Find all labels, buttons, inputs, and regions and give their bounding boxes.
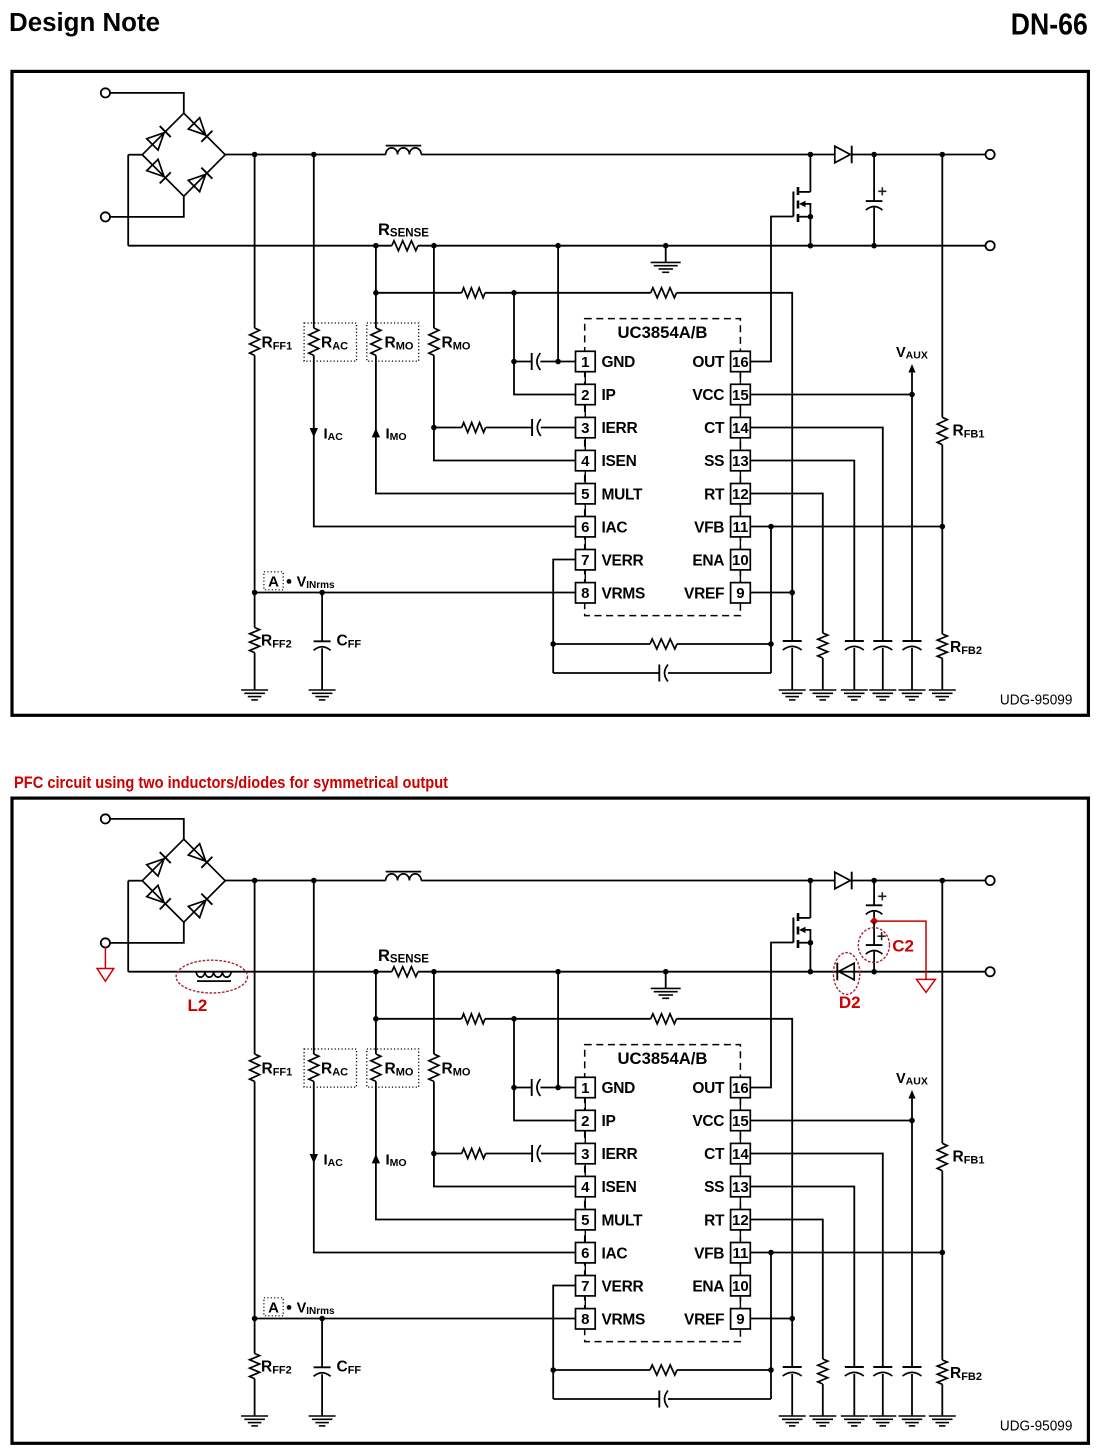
wire C2 top [873,921,875,945]
wire RMO column B to pin 4 [434,1081,576,1186]
label RFF2 [261,1359,292,1377]
pin 13 SS [704,450,750,470]
wire pin 12 RT column [750,494,823,634]
junction (RAC column / top rail) [311,152,317,158]
node bullet [287,579,292,584]
junction (RMO column A / lower rail) [373,243,379,249]
svg-text:11: 11 [732,519,748,536]
label RMO (B) [442,1061,471,1079]
red wire to ground [874,921,926,979]
pin 11 VFB [694,1243,750,1263]
pin 16 OUT [692,1077,750,1097]
transistor Q1 (MOSFET) [793,155,813,246]
pin 3 IERR [576,417,638,437]
pin 3 IERR [576,1143,638,1163]
AC input terminal J1 (top) [101,88,110,97]
svg-text:14: 14 [732,1146,749,1163]
svg-text:8: 8 [581,1311,589,1328]
svg-text:9: 9 [736,585,744,602]
wire [128,154,142,156]
pin 13 SS [704,1176,750,1196]
svg-text:VREF: VREF [684,585,724,602]
capacitor (CT) [873,641,892,650]
label UC3854A/B [618,1050,708,1068]
label C2 [892,937,914,956]
DC output terminal (return) [986,241,995,250]
wire comp cap row (right) [668,1398,771,1400]
svg-text:C2: C2 [892,937,914,956]
diode D1 (boost diode) [835,146,852,164]
label L2 [188,996,208,1015]
transistor Q1 (MOSFET) [793,881,813,972]
wire top rail (bridge to inductor) [225,880,386,882]
label IMO [386,426,407,444]
svg-text:13: 13 [732,1179,749,1196]
resistor RMO (B) [429,328,439,355]
svg-text:PFC circuit using two inductor: PFC circuit using two inductors/diodes f… [14,773,448,792]
svg-text:D2: D2 [839,993,861,1012]
junction (VFB / compensation) [768,524,774,530]
current arrow IMO [372,1154,380,1163]
svg-text:IAC: IAC [602,1245,628,1262]
junction (pin 2 branch / 292-row) [511,290,517,296]
bridge rectifier BR1 frame [142,113,225,196]
current arrow IAC [310,428,318,437]
resistor RFB2 [937,634,947,658]
node A (dotted box) [264,1298,283,1317]
AC input terminal J1 (top) [101,814,110,823]
svg-text:2: 2 [581,1113,589,1130]
wire RMO column A to pin 5 [376,1081,576,1219]
pin 5 MULT [576,1210,644,1230]
label CFF [337,1359,362,1377]
capacitor (VREF bypass) [783,641,802,650]
wire lower rail (left of RSENSE) [128,245,392,247]
resistor RFF2 [250,1354,260,1379]
resistor RFF1 [250,1054,260,1081]
wire RFB1 to VFB node [941,445,943,634]
resistor (IERR row) [462,1149,486,1159]
junction (RMO column B / lower rail) [431,243,437,249]
red circle around D2 [833,953,859,995]
svg-text:9: 9 [736,1311,744,1328]
wire RMO column A to pin 5 [376,355,576,493]
svg-text:UDG-95099: UDG-95099 [1000,693,1073,709]
resistor RAC [309,1054,319,1081]
wire [127,155,129,246]
svg-text:IERR: IERR [602,420,638,437]
label RMO (B) [442,335,471,353]
wire RAC column to pin 6 [314,1081,576,1252]
AC input terminal J2 (bottom) [101,212,110,221]
svg-text:5: 5 [581,486,589,503]
pin 8 VRMS [576,583,646,603]
red ground wire (input) [104,948,106,969]
svg-text:CT: CT [704,420,725,437]
svg-text:Design Note: Design Note [9,9,160,37]
svg-text:IAC: IAC [602,519,628,536]
wire RAC column to pin 6 [314,355,576,526]
capacitor (CT) [873,1367,892,1376]
junction (VFB node) [940,1250,946,1256]
node bullet [287,1305,292,1310]
wire pin1 row (left) [514,1087,532,1089]
svg-text:8: 8 [581,585,589,602]
pin 8 VRMS [576,1309,646,1329]
wire SS cap to ground [853,1374,855,1416]
wire top rail (diode to + output) [852,154,986,156]
pin 5 MULT [576,484,644,504]
svg-text:VCC: VCC [692,1113,724,1130]
capacitor (SS) [845,1367,864,1376]
resistor RFB2 [937,1360,947,1384]
wire compensation vertical [770,1253,772,1400]
svg-text:GND: GND [602,1080,636,1097]
node C1-C2 (red junction) [870,917,878,925]
svg-text:10: 10 [732,552,749,569]
wire RAC column (top) [313,155,315,329]
wire pin 8 VRMS row [255,1318,576,1320]
wire pin1 row (right) [540,1087,575,1089]
wire comp resistor row (left) [553,1369,650,1371]
ground (RT) [809,1416,836,1426]
svg-text:VRMS: VRMS [602,585,646,602]
svg-text:VCC: VCC [692,387,724,404]
wire comp cap row (left) [553,672,659,674]
wire pin 13 SS column [750,461,854,642]
pin 7 VERR [576,550,644,570]
junction (pin 1 row right) [555,359,561,365]
svg-text:GND: GND [602,354,636,371]
label RFF1 [262,1061,293,1079]
wire CT cap to ground [882,648,884,690]
label IAC [324,1152,344,1170]
label UDG-95099 [1000,1419,1073,1435]
wire RFB2 to ground [941,658,943,690]
schematic frame (top) [12,71,1088,715]
capacitor (IERR row) [532,1145,541,1162]
svg-text:A: A [268,1300,279,1317]
wire gate lead to pin 16 [750,943,793,1088]
svg-text:1: 1 [581,1080,589,1097]
resistor RAC [309,328,319,355]
capacitor (GND pin 1) [532,353,541,370]
resistor (292-row right) [651,1014,677,1024]
junction (292 row / RMO column A) [373,1016,379,1022]
wire VCC cap to ground [911,1374,913,1416]
junction (pin 1 row left) [511,359,517,365]
wire [110,93,184,114]
wire [110,922,184,943]
junction (pin 9 VREF row) [789,590,795,596]
svg-text:MULT: MULT [602,1212,644,1229]
wire C1 bottom [873,208,875,246]
svg-text:2: 2 [581,387,589,404]
junction (pin 9 VREF row) [789,1316,795,1322]
diode D1 (boost diode) [835,872,852,890]
capacitor CFF [314,641,331,650]
resistor (IERR row) [462,423,486,433]
pin 1 GND [576,1077,636,1097]
wire CFF to ground [321,648,323,690]
junction (VFB node) [940,524,946,530]
resistor RMO (A) [371,1054,381,1081]
label CFF [337,633,362,651]
svg-text:4: 4 [581,1179,590,1196]
wire RFF2 to ground [254,1379,256,1416]
junction (pin 3 row / RMO column B) [431,425,437,431]
label VAUX [896,345,928,362]
pin 6 IAC [576,1243,628,1263]
wire RMO column A (top) [375,972,377,1054]
ground (CFF) [309,690,336,700]
svg-text:IP: IP [602,1113,616,1130]
red circle around L2 [176,960,247,993]
label RFB1 [953,423,985,441]
wire pin1 row (left) [514,361,532,363]
wire VAUX column [911,1099,913,1368]
wire RT resistor to ground [822,1384,824,1416]
svg-text:IERR: IERR [602,1146,638,1163]
label VINrms [297,574,335,591]
label UC3854A/B [618,324,708,342]
label UDG-95099 [1000,693,1073,709]
svg-text:14: 14 [732,420,749,437]
svg-text:MULT: MULT [602,486,644,503]
wire pin 14 CT column [750,428,883,642]
title Design Note [9,9,160,37]
junction (C1 bottom / lower rail) [871,969,877,975]
capacitor (VCC bypass) [903,641,922,650]
wire top rail (bridge to inductor) [225,154,386,156]
junction (pin 1 row right) [555,1085,561,1091]
svg-text:SS: SS [704,453,724,470]
wire pin 7 VERR branch [553,1286,575,1400]
wire CFF column [321,1319,323,1368]
wire pin3 row (right) [541,1153,576,1155]
dotted box around RMO [367,1049,419,1087]
schematic frame (bottom) [12,798,1088,1443]
pin 9 VREF [684,1309,750,1329]
wire [110,819,184,840]
pin 2 IP [576,384,616,404]
svg-text:ISEN: ISEN [602,1179,637,1196]
junction (MOSFET drain / top rail) [808,878,814,884]
wire pin 11 VFB row [750,526,942,528]
wire top rail (inductor to diode D1) [421,154,835,156]
bridge diode D-C (bottom-left edge) [147,159,171,183]
IC U1 UC3854A/B (dashed outline) [585,319,741,616]
pin 9 VREF [684,583,750,603]
wire VCC cap to ground [911,648,913,690]
svg-text:ENA: ENA [692,552,724,569]
inductor L1 [386,146,422,155]
pin 12 RT [704,484,750,504]
wire compensation vertical [770,527,772,674]
svg-text:1: 1 [581,354,589,371]
bridge diode D-A (left-top edge) [147,852,171,876]
wire 292-row (left) [376,292,462,294]
pin 4 ISEN [576,450,637,470]
svg-text:A: A [268,574,279,591]
junction (MOSFET source / lower rail) [808,243,814,249]
svg-text:15: 15 [732,1113,749,1130]
wire pin 11 VFB row [750,1252,942,1254]
label RSENSE [378,947,429,966]
svg-text:OUT: OUT [692,354,725,371]
junction (RFF divider / VRMS row) [252,1316,258,1322]
dotted box around RAC [304,323,356,361]
capacitor (GND pin 1) [532,1079,541,1096]
svg-text:UC3854A/B: UC3854A/B [618,324,708,342]
wire comp resistor row (right) [677,1369,771,1371]
wire RFB1 column (top) [941,155,943,418]
pin 15 VCC [692,1110,750,1130]
ground (RFB2) [929,690,956,700]
wire RFF1 column (top) [254,881,256,1055]
DC output terminal (+) [986,150,995,159]
pin 10 ENA [692,1276,750,1296]
junction (C1 / top rail) [871,878,877,884]
diode D2 [837,963,854,981]
wire x558 vertical [557,972,559,1088]
wire C2 bottom [873,952,875,972]
pin 7 VERR [576,1276,644,1296]
svg-text:16: 16 [732,1080,749,1097]
junction (ground stub / lower rail) [663,969,669,975]
wire RFF2 to ground [254,653,256,690]
ground (lower rail) [651,988,681,998]
junction (comp resistor row) [768,641,774,647]
title DN-66 [1011,8,1088,42]
ground (CT) [869,690,896,700]
bridge diode D-B (top-right edge) [188,844,212,868]
capacitor (VREF bypass) [783,1367,802,1376]
svg-text:12: 12 [732,1212,749,1229]
junction (RFB1 / top rail) [940,878,946,884]
ground (RFF2) [241,690,268,700]
svg-text:15: 15 [732,387,749,404]
wire C1 top [873,881,875,906]
label RFB2 [950,1365,982,1383]
dotted box around RAC [304,1049,356,1087]
resistor (292-row right) [651,288,677,298]
junction (pin 2 branch / 292-row) [511,1016,517,1022]
wire RMO column B to pin 4 [434,355,576,460]
resistor (compensation) [650,639,677,649]
wire 292-row to VREF column [677,293,793,641]
junction (VAUX node) [909,1118,915,1124]
wire pin3 row (left) [434,1153,462,1155]
capacitor CFF [314,1367,331,1376]
pin 2 IP [576,1110,616,1130]
resistor (RT) [818,1359,828,1384]
wire lower rail (right of RSENSE) [418,971,986,973]
pin 10 ENA [692,550,750,570]
pin 14 CT [704,417,750,437]
DC output terminal (+) [986,876,995,885]
junction (292 row / RMO column A) [373,290,379,296]
wire RFF1 column (top) [254,155,256,329]
wire pin 15 VCC to VAUX node [750,1120,912,1122]
resistor RFB1 [937,417,947,444]
capacitor (compensation) [659,1391,668,1408]
bridge diode D-B (top-right edge) [188,118,212,142]
wire pin3 row (left) [434,427,462,429]
bridge diode D-D (bottom-right edge) [188,167,212,191]
wire pin3 row (right) [541,427,576,429]
label IAC [324,426,344,444]
label RMO (A) [385,1061,414,1079]
pin 6 IAC [576,517,628,537]
ground (RFB2) [929,1416,956,1426]
ground (SS) [841,690,868,700]
ground (VCC cap) [899,690,926,700]
junction (VFB / compensation) [768,1250,774,1256]
resistor RMO (B) [429,1054,439,1081]
label RFB1 [953,1149,985,1167]
ground (VREF cap) [779,690,806,700]
svg-text:VFB: VFB [694,1245,724,1262]
wire 292-row (left) [376,1018,462,1020]
junction (comp resistor row) [768,1367,774,1373]
wire 292-row (mid) [485,292,651,294]
label RMO (A) [385,335,414,353]
wire 292-row to VREF column [677,1019,793,1367]
ground (CFF) [309,1416,336,1426]
VAUX arrow [908,364,915,373]
junction (CFF / VRMS row) [319,590,325,596]
junction (RFB1 / top rail) [940,152,946,158]
wire VREF cap to ground [791,1374,793,1416]
label RFF2 [261,633,292,651]
junction (RFF divider / VRMS row) [252,590,258,596]
wire pin 14 CT column [750,1154,883,1368]
resistor (compensation) [650,1365,677,1375]
wire pin 13 SS column [750,1187,854,1368]
junction (pin 1 row left) [511,1085,517,1091]
red ground arrow (output) [917,979,936,992]
svg-text:3: 3 [581,1146,589,1163]
wire pin 7 VERR branch [553,560,575,674]
wire pin2 branch [514,1019,576,1121]
red ground arrow (input) [97,969,114,982]
label IMO [386,1152,407,1170]
wire RFB2 to ground [941,1384,943,1416]
wire pin 12 RT column [750,1220,823,1360]
wire RFB1 to VFB node [941,1171,943,1360]
capacitor (SS) [845,641,864,650]
wire pin 15 VCC to VAUX node [750,394,912,396]
inductor L1 [386,872,422,881]
svg-text:13: 13 [732,453,749,470]
inductor L2 [196,972,231,982]
ground (SS) [841,1416,868,1426]
wire top rail (diode to + output) [852,880,986,882]
capacitor C1 (+ output) [866,187,887,210]
capacitor C2 [866,932,886,954]
resistor RSENSE [392,967,418,977]
ground (RT) [809,690,836,700]
ground (CT) [869,1416,896,1426]
svg-text:UC3854A/B: UC3854A/B [618,1050,708,1068]
wire pin3 row (mid) [486,427,532,429]
ground (VREF cap) [779,1416,806,1426]
pin 4 ISEN [576,1176,637,1196]
wire lower rail (right of RSENSE) [418,245,986,247]
label RSENSE [378,221,429,240]
junction (GND cap column / lower rail) [555,243,561,249]
